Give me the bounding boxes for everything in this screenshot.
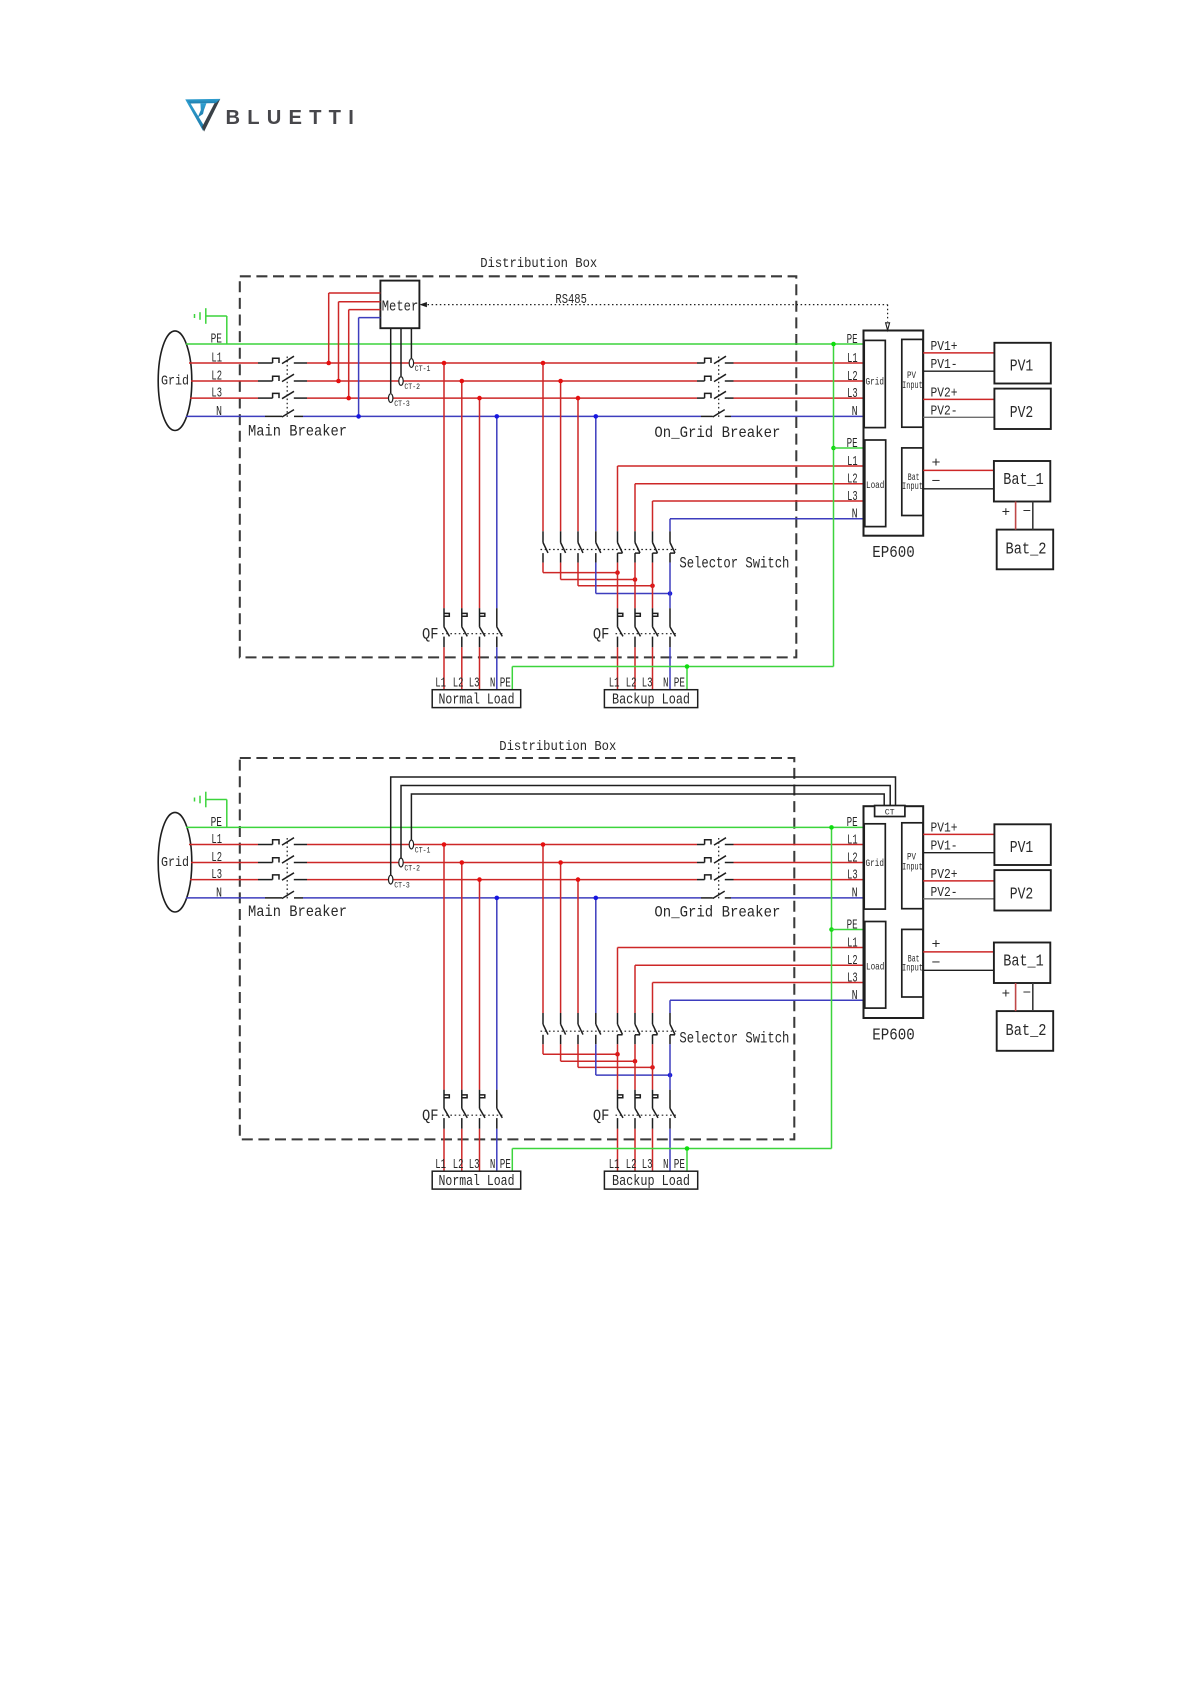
wire Bat_1 to Bat_2 - link (diagram 1) bbox=[1023, 502, 1033, 530]
svg-text:Normal Load: Normal Load bbox=[439, 1174, 515, 1190]
wire meter tap to L1 bbox=[326, 293, 380, 365]
breaker QF (Normal Load) pole L1 diagram 2 bbox=[444, 1090, 450, 1129]
svg-text:Load: Load bbox=[866, 961, 885, 973]
wire selector link L1 (diagram 1) bbox=[543, 563, 620, 575]
wire selector link L3 (diagram 2) bbox=[578, 1044, 655, 1069]
svg-text:CT-3: CT-3 bbox=[394, 399, 410, 409]
mechanical link QF Normal (diagram 2) bbox=[442, 1114, 504, 1116]
EP600 CT port box bbox=[875, 806, 905, 818]
wire drop L1 to Normal-Load QF (diagram 2) bbox=[442, 842, 447, 1089]
net labels PE L1 L2 L3 N at EP600 Load port (diagram 2) bbox=[847, 918, 858, 1004]
svg-text:L1: L1 bbox=[211, 832, 222, 848]
wire PE to EP600 Load port (diagram 2) bbox=[832, 929, 864, 931]
breaker QF (Backup Load) pole N diagram 2 bbox=[670, 1090, 676, 1129]
wire drop N to Normal-Load QF (diagram 1) bbox=[495, 414, 500, 608]
wire L2 selector to Backup-Load QF and terminal (diagram 1) bbox=[634, 563, 636, 690]
wire meter to CT-2 bbox=[400, 328, 402, 376]
wire Bat + (diagram 1) bbox=[923, 455, 994, 471]
wire Bat_1 to Bat_2 + link (diagram 1) bbox=[1002, 502, 1016, 530]
meter M1 (Meter) bbox=[380, 281, 419, 329]
BLUETTI logo icon bbox=[185, 99, 220, 132]
load block Backup Load (diagram 2) bbox=[604, 1171, 697, 1190]
selector switch pole 8 (EP600 N) diagram 2 bbox=[670, 1013, 675, 1044]
svg-text:Backup Load: Backup Load bbox=[612, 1174, 690, 1190]
breaker QF (Normal Load) pole L1 diagram 1 bbox=[444, 608, 450, 647]
net labels PE L1 L2 L3 N at EP600 Grid port (diagram 1) bbox=[847, 333, 858, 420]
EP600 PV Input port (diagram 1) bbox=[902, 339, 923, 427]
svg-text:PV1: PV1 bbox=[1010, 839, 1034, 858]
wire EP600 Load L1 to Selector Switch (diagram 1) bbox=[618, 466, 864, 531]
wire Bat + (diagram 2) bbox=[923, 937, 994, 953]
breaker QF (Normal Load) pole L3 diagram 1 bbox=[480, 608, 486, 647]
selector switch pole 5 (EP600 L1) diagram 2 bbox=[618, 1013, 623, 1044]
net labels PE L1 L2 L3 N at grid (diagram 2) bbox=[211, 815, 222, 902]
svg-text:Grid: Grid bbox=[161, 855, 189, 871]
wire L1 QF to Normal Load terminal (diagram 1) bbox=[443, 647, 445, 690]
wire EP600 Load L3 to Selector Switch (diagram 2) bbox=[653, 983, 864, 1014]
wire meter tap to L2 bbox=[336, 302, 380, 384]
wire PV2+ (diagram 1) bbox=[923, 385, 994, 401]
wire drop L1 to Normal-Load QF (diagram 1) bbox=[442, 361, 447, 609]
selector switch pole 4 (grid N) diagram 2 bbox=[596, 1013, 601, 1044]
svg-text:Input: Input bbox=[902, 964, 923, 975]
CT sensor CT-3 on L3 (diagram 1) bbox=[389, 394, 410, 409]
svg-text:N: N bbox=[852, 989, 858, 1004]
svg-text:QF: QF bbox=[422, 626, 439, 644]
wire PE bottom run to load terminals (diagram 1) bbox=[512, 664, 833, 690]
wire EP600 Load L3 to Selector Switch (diagram 1) bbox=[653, 501, 864, 531]
selector switch pole 8 (EP600 N) diagram 1 bbox=[670, 531, 675, 562]
inverter EP600 outline (diagram 2) bbox=[864, 806, 924, 1018]
distribution box dashed enclosure (diagram 1) bbox=[240, 276, 797, 657]
terminal labels L1 L2 L3 N PE at Normal Load (diagram 2) bbox=[435, 1158, 511, 1173]
EP600 Load output port (diagram 1) bbox=[865, 440, 886, 527]
svg-text:CT-2: CT-2 bbox=[404, 864, 420, 874]
breaker: On_Grid Breaker pole L3 (diagram 2) bbox=[705, 873, 726, 880]
selector switch pole 4 (grid N) diagram 1 bbox=[596, 531, 601, 562]
wire drop L3 to Normal-Load QF (diagram 2) bbox=[477, 877, 482, 1089]
wire Bat_1 to Bat_2 - link (diagram 2) bbox=[1023, 983, 1033, 1011]
net labels PE L1 L2 L3 N at EP600 Grid port (diagram 2) bbox=[847, 816, 858, 902]
wire L2 QF to Normal Load terminal (diagram 1) bbox=[461, 647, 463, 690]
svg-text:PE: PE bbox=[211, 815, 222, 831]
svg-text:On_Grid Breaker: On_Grid Breaker bbox=[654, 424, 780, 442]
selector switch pole 6 (EP600 L2) diagram 1 bbox=[635, 531, 640, 562]
solar panel PV1 (diagram 2) bbox=[994, 824, 1050, 865]
selector switch pole 1 (grid L1) diagram 1 bbox=[543, 531, 548, 562]
wire selector link L2 (diagram 2) bbox=[561, 1044, 638, 1063]
wire L3 selector to Backup-Load QF and terminal (diagram 1) bbox=[652, 563, 654, 690]
svg-text:QF: QF bbox=[593, 1107, 610, 1125]
mechanical link of Selector Switch (diagram 1) bbox=[541, 549, 677, 551]
wire Bat - (diagram 1) bbox=[923, 474, 994, 490]
EP600 PV Input port (diagram 2) bbox=[902, 823, 923, 909]
svg-text:Load: Load bbox=[866, 480, 885, 492]
mechanical link of Selector Switch (diagram 2) bbox=[541, 1030, 677, 1032]
wire EP600 Load L2 to Selector Switch (diagram 1) bbox=[635, 484, 864, 532]
breaker QF (Backup Load) pole L2 diagram 2 bbox=[635, 1090, 641, 1129]
load block Normal Load (diagram 2) bbox=[432, 1171, 521, 1190]
svg-text:Selector Switch: Selector Switch bbox=[679, 1029, 789, 1047]
svg-text:EP600: EP600 bbox=[872, 544, 915, 563]
EP600 Bat Input port (diagram 1) bbox=[902, 448, 923, 516]
wire Bat - (diagram 2) bbox=[923, 955, 994, 971]
svg-text:L2: L2 bbox=[847, 473, 858, 488]
breaker: On_Grid Breaker pole N (diagram 1) bbox=[713, 410, 725, 417]
wire selector link L3 (diagram 1) bbox=[578, 563, 655, 589]
breaker: On_Grid Breaker pole N (diagram 2) bbox=[713, 891, 725, 898]
svg-text:L2: L2 bbox=[847, 954, 858, 969]
wire EP600 Load N to Selector Switch (diagram 1) bbox=[670, 519, 864, 532]
svg-text:L1: L1 bbox=[847, 455, 858, 470]
svg-text:+: + bbox=[1002, 988, 1011, 1003]
svg-text:N: N bbox=[216, 885, 222, 901]
breaker: Main Breaker pole L3 (diagram 1) bbox=[273, 391, 294, 398]
wire L2 bus diagram 2 bbox=[191, 862, 864, 864]
wire drop L1 to Selector Switch (diagram 2) bbox=[541, 842, 546, 1013]
svg-text:L1: L1 bbox=[211, 351, 222, 367]
svg-text:RS485: RS485 bbox=[555, 293, 587, 308]
selector switch pole 3 (grid L3) diagram 2 bbox=[578, 1013, 583, 1044]
EP600 Bat Input port (diagram 2) bbox=[902, 929, 923, 997]
battery Bat_2 (diagram 1) bbox=[997, 530, 1053, 570]
mechanical link QF Backup (diagram 2) bbox=[616, 1114, 677, 1116]
svg-text:Bat_1: Bat_1 bbox=[1003, 952, 1044, 971]
svg-text:PV2: PV2 bbox=[1010, 885, 1034, 904]
wire drop L2 to Selector Switch (diagram 2) bbox=[558, 860, 563, 1013]
svg-text:N: N bbox=[852, 508, 858, 523]
wire N QF to Normal Load terminal (diagram 1) bbox=[496, 647, 498, 690]
breaker QF (Normal Load) pole L2 diagram 1 bbox=[462, 608, 468, 647]
wire PV1- (diagram 2) bbox=[923, 839, 994, 855]
CT sensor CT-1 on L1 (diagram 2) bbox=[409, 840, 430, 855]
svg-text:Main Breaker: Main Breaker bbox=[248, 903, 347, 921]
wire PV2- (diagram 2) bbox=[923, 885, 994, 901]
wire drop N to Selector Switch (diagram 1) bbox=[594, 414, 599, 531]
svg-text:L3: L3 bbox=[211, 386, 222, 402]
wire L2 bus diagram 1 bbox=[191, 380, 864, 382]
wire Bat_1 to Bat_2 + link (diagram 2) bbox=[1002, 983, 1016, 1011]
svg-text:PE: PE bbox=[847, 918, 858, 933]
svg-text:L3: L3 bbox=[847, 387, 858, 402]
wire CT-2 to CT port bbox=[401, 786, 890, 868]
svg-text:On_Grid Breaker: On_Grid Breaker bbox=[654, 904, 780, 922]
svg-text:Input: Input bbox=[902, 381, 923, 392]
CT sensor CT-2 on L2 (diagram 1) bbox=[399, 377, 420, 392]
wire L1 bus diagram 1 bbox=[189, 362, 864, 364]
battery Bat_1 (diagram 1) bbox=[994, 461, 1050, 502]
svg-text:L1: L1 bbox=[847, 352, 858, 367]
wire L3 QF to Normal Load terminal (diagram 1) bbox=[479, 647, 481, 690]
svg-text:Grid: Grid bbox=[866, 377, 885, 389]
wire PV1- (diagram 1) bbox=[923, 357, 994, 373]
svg-text:N: N bbox=[852, 405, 858, 420]
wire L2 QF to Normal Load terminal (diagram 2) bbox=[461, 1129, 463, 1172]
wire selector link L1 (diagram 2) bbox=[543, 1044, 620, 1056]
wire meter tap to N bbox=[356, 318, 380, 419]
svg-text:Bat_1: Bat_1 bbox=[1003, 471, 1044, 490]
breaker: Main Breaker pole L1 (diagram 2) bbox=[273, 838, 294, 845]
EP600 Load output port (diagram 2) bbox=[865, 922, 886, 1009]
svg-text:−: − bbox=[1023, 505, 1032, 520]
battery Bat_2 (diagram 2) bbox=[997, 1011, 1053, 1051]
wire PE vertical feeder (diagram 1) bbox=[831, 342, 836, 667]
wire meter to CT-1 bbox=[410, 328, 412, 358]
svg-text:CT-1: CT-1 bbox=[415, 364, 431, 374]
wire selector link N (diagram 2) bbox=[596, 1044, 673, 1077]
mechanical link of Main Breaker (diagram 2) bbox=[286, 838, 288, 899]
wire L3 bus diagram 1 bbox=[190, 397, 864, 399]
wire L3 QF to Normal Load terminal (diagram 2) bbox=[479, 1129, 481, 1172]
wire EP600 Load L1 to Selector Switch (diagram 2) bbox=[618, 948, 864, 1014]
breaker QF (Backup Load) pole N diagram 1 bbox=[670, 608, 676, 647]
breaker: On_Grid Breaker pole L2 (diagram 1) bbox=[705, 374, 726, 381]
terminal labels L1 L2 L3 N PE at Backup Load (diagram 2) bbox=[609, 1158, 685, 1173]
CT sensor CT-1 on L1 (diagram 1) bbox=[409, 359, 430, 374]
wire drop N to Normal-Load QF (diagram 2) bbox=[495, 896, 500, 1090]
wire L1 selector to Backup-Load QF and terminal (diagram 1) bbox=[617, 563, 619, 690]
breaker: Main Breaker pole N (diagram 2) bbox=[282, 891, 294, 898]
svg-text:N: N bbox=[852, 887, 858, 902]
svg-text:Normal Load: Normal Load bbox=[439, 693, 515, 709]
svg-text:+: + bbox=[932, 455, 941, 471]
breaker: Main Breaker pole L2 (diagram 1) bbox=[273, 374, 294, 381]
wire selector link N (diagram 1) bbox=[596, 563, 673, 596]
wire PE vertical feeder (diagram 2) bbox=[829, 825, 834, 1148]
EP600 Grid input port (diagram 1) bbox=[864, 340, 885, 427]
svg-text:QF: QF bbox=[422, 1107, 439, 1125]
breaker: On_Grid Breaker pole L2 (diagram 2) bbox=[705, 856, 726, 863]
wire meter tap to L3 bbox=[346, 310, 380, 401]
selector switch pole 3 (grid L3) diagram 1 bbox=[578, 531, 583, 562]
solar panel PV2 (diagram 2) bbox=[994, 870, 1050, 910]
svg-text:L2: L2 bbox=[211, 850, 222, 866]
svg-text:−: − bbox=[932, 955, 941, 971]
svg-text:Backup Load: Backup Load bbox=[612, 693, 690, 709]
wire PV1+ (diagram 1) bbox=[923, 339, 994, 355]
wire CT-3 to CT port bbox=[391, 777, 896, 885]
svg-text:EP600: EP600 bbox=[872, 1027, 915, 1046]
load block Normal Load (diagram 1) bbox=[432, 690, 521, 709]
breaker QF (Backup Load) pole L1 diagram 2 bbox=[618, 1090, 624, 1129]
breaker QF (Backup Load) pole L2 diagram 1 bbox=[635, 608, 641, 647]
svg-text:PV1: PV1 bbox=[1010, 358, 1034, 377]
svg-text:PE: PE bbox=[211, 332, 222, 348]
svg-text:CT-2: CT-2 bbox=[404, 382, 420, 392]
breaker: Main Breaker pole L3 (diagram 2) bbox=[273, 873, 294, 880]
wire PE bottom run to load terminals (diagram 2) bbox=[512, 1146, 831, 1171]
wire N selector to Backup-Load QF and terminal (diagram 1) bbox=[669, 563, 671, 690]
breaker: Main Breaker pole L1 (diagram 1) bbox=[273, 356, 294, 363]
breaker QF (Normal Load) pole L2 diagram 2 bbox=[462, 1090, 468, 1129]
breaker QF (Normal Load) pole N diagram 1 bbox=[497, 608, 503, 647]
svg-text:Grid: Grid bbox=[161, 374, 189, 390]
wire L1 selector to Backup-Load QF and terminal (diagram 2) bbox=[617, 1044, 619, 1171]
svg-text:Distribution Box: Distribution Box bbox=[499, 739, 616, 755]
wire EP600 Load L2 to Selector Switch (diagram 2) bbox=[635, 965, 864, 1013]
terminal labels L1 L2 L3 N PE at Normal Load (diagram 1) bbox=[435, 677, 511, 692]
svg-text:QF: QF bbox=[593, 626, 610, 644]
svg-text:L2: L2 bbox=[847, 851, 858, 866]
svg-text:Bat_2: Bat_2 bbox=[1006, 541, 1047, 560]
mechanical link of Main Breaker (diagram 1) bbox=[286, 357, 288, 418]
mechanical link of On_Grid Breaker (diagram 2) bbox=[718, 838, 720, 899]
svg-text:L3: L3 bbox=[847, 490, 858, 505]
selector switch pole 2 (grid L2) diagram 1 bbox=[561, 531, 566, 562]
selector switch pole 2 (grid L2) diagram 2 bbox=[561, 1013, 566, 1044]
wire PV2+ (diagram 2) bbox=[923, 867, 994, 883]
svg-text:PE: PE bbox=[847, 437, 858, 452]
selector switch pole 5 (EP600 L1) diagram 1 bbox=[618, 531, 623, 562]
grid source G2 (Grid utility) bbox=[158, 812, 192, 912]
wire PV2- (diagram 1) bbox=[923, 403, 994, 419]
wire L3 bus diagram 2 bbox=[190, 879, 864, 881]
svg-text:+: + bbox=[932, 937, 941, 953]
svg-text:PV2: PV2 bbox=[1010, 404, 1034, 423]
svg-text:L3: L3 bbox=[211, 867, 222, 883]
ground / earth symbol (diagram 2) bbox=[195, 792, 227, 828]
solar panel PV2 (diagram 1) bbox=[994, 389, 1050, 429]
inverter EP600 outline (diagram 1) bbox=[864, 331, 924, 536]
wire PV1+ (diagram 2) bbox=[923, 820, 994, 836]
net labels PE L1 L2 L3 N at EP600 Load port (diagram 1) bbox=[847, 437, 858, 523]
breaker: On_Grid Breaker pole L3 (diagram 1) bbox=[705, 391, 726, 398]
breaker: On_Grid Breaker pole L1 (diagram 1) bbox=[705, 356, 726, 363]
battery Bat_1 (diagram 2) bbox=[994, 943, 1050, 984]
grid source G1 (Grid utility) bbox=[158, 331, 192, 431]
mechanical link QF Backup (diagram 1) bbox=[616, 633, 677, 635]
selector switch pole 7 (EP600 L3) diagram 1 bbox=[653, 531, 658, 562]
svg-text:BLUETTI: BLUETTI bbox=[226, 106, 362, 129]
svg-text:L1: L1 bbox=[847, 833, 858, 848]
svg-text:CT-3: CT-3 bbox=[394, 881, 410, 891]
wire meter to CT-3 bbox=[390, 328, 392, 393]
svg-text:Selector Switch: Selector Switch bbox=[679, 554, 789, 572]
svg-text:Distribution Box: Distribution Box bbox=[480, 256, 597, 272]
breaker: Main Breaker pole L2 (diagram 2) bbox=[273, 856, 294, 863]
wire PE to EP600 Load port (diagram 1) bbox=[834, 447, 864, 449]
wire drop N to Selector Switch (diagram 2) bbox=[594, 896, 599, 1013]
svg-text:Input: Input bbox=[902, 862, 923, 873]
wire L2 selector to Backup-Load QF and terminal (diagram 2) bbox=[634, 1044, 636, 1171]
svg-text:L3: L3 bbox=[847, 971, 858, 986]
wire EP600 Load N to Selector Switch (diagram 2) bbox=[670, 1000, 864, 1013]
svg-text:Meter: Meter bbox=[382, 298, 419, 315]
net labels PE L1 L2 L3 N at grid (diagram 1) bbox=[211, 332, 222, 420]
breaker QF (Normal Load) pole N diagram 2 bbox=[497, 1090, 503, 1129]
svg-text:PE: PE bbox=[847, 333, 858, 348]
ground / earth symbol (diagram 1) bbox=[195, 308, 227, 344]
svg-text:N: N bbox=[216, 404, 222, 420]
svg-text:Grid: Grid bbox=[866, 858, 885, 870]
wire PE bus (green) diagram 1 bbox=[186, 343, 864, 345]
svg-text:Input: Input bbox=[902, 482, 923, 493]
wire N QF to Normal Load terminal (diagram 2) bbox=[496, 1129, 498, 1172]
wire drop L2 to Normal-Load QF (diagram 1) bbox=[460, 379, 465, 609]
svg-text:+: + bbox=[1002, 506, 1011, 521]
mechanical link of On_Grid Breaker (diagram 1) bbox=[718, 357, 720, 418]
wire drop L2 to Selector Switch (diagram 1) bbox=[558, 379, 563, 532]
breaker: On_Grid Breaker pole L1 (diagram 2) bbox=[705, 838, 726, 845]
breaker QF (Backup Load) pole L3 diagram 2 bbox=[653, 1090, 659, 1129]
svg-text:−: − bbox=[1023, 987, 1032, 1002]
wire drop L3 to Selector Switch (diagram 1) bbox=[576, 396, 581, 531]
solar panel PV1 (diagram 1) bbox=[994, 343, 1050, 384]
svg-text:CT: CT bbox=[885, 807, 895, 817]
wire drop L2 to Normal-Load QF (diagram 2) bbox=[460, 860, 465, 1089]
distribution box dashed enclosure (diagram 2) bbox=[240, 758, 795, 1139]
mechanical link QF Normal (diagram 1) bbox=[442, 633, 504, 635]
RS485 dotted communication line with arrows bbox=[419, 302, 889, 330]
svg-text:Main Breaker: Main Breaker bbox=[248, 423, 347, 441]
wire selector link L2 (diagram 1) bbox=[561, 563, 638, 582]
selector switch pole 1 (grid L1) diagram 2 bbox=[543, 1013, 548, 1044]
svg-text:L2: L2 bbox=[847, 370, 858, 385]
svg-text:L1: L1 bbox=[847, 936, 858, 951]
svg-text:CT-1: CT-1 bbox=[415, 846, 431, 856]
svg-text:PE: PE bbox=[847, 816, 858, 831]
breaker QF (Normal Load) pole L3 diagram 2 bbox=[480, 1090, 486, 1129]
selector switch pole 7 (EP600 L3) diagram 2 bbox=[653, 1013, 658, 1044]
CT sensor CT-3 on L3 (diagram 2) bbox=[389, 875, 410, 890]
wire N bus (blue) diagram 2 bbox=[186, 897, 864, 899]
wire N bus (blue) diagram 1 bbox=[186, 415, 864, 417]
svg-text:−: − bbox=[932, 474, 941, 490]
svg-text:L2: L2 bbox=[211, 369, 222, 385]
wire PE bus (green) diagram 2 bbox=[186, 826, 864, 828]
selector switch pole 6 (EP600 L2) diagram 2 bbox=[635, 1013, 640, 1044]
wire drop L3 to Normal-Load QF (diagram 1) bbox=[477, 396, 482, 608]
svg-text:Bat_2: Bat_2 bbox=[1006, 1022, 1047, 1041]
wire drop L3 to Selector Switch (diagram 2) bbox=[576, 877, 581, 1013]
EP600 Grid input port (diagram 2) bbox=[864, 824, 885, 909]
wire CT-1 to CT port bbox=[411, 794, 884, 850]
wire drop L1 to Selector Switch (diagram 1) bbox=[541, 361, 546, 532]
wire N selector to Backup-Load QF and terminal (diagram 2) bbox=[669, 1044, 671, 1171]
terminal labels L1 L2 L3 N PE at Backup Load (diagram 1) bbox=[609, 677, 685, 692]
breaker: Main Breaker pole N (diagram 1) bbox=[282, 410, 294, 417]
wire L1 QF to Normal Load terminal (diagram 2) bbox=[443, 1129, 445, 1172]
wire L1 bus diagram 2 bbox=[189, 844, 864, 846]
svg-text:L3: L3 bbox=[847, 868, 858, 883]
breaker QF (Backup Load) pole L3 diagram 1 bbox=[653, 608, 659, 647]
wire L3 selector to Backup-Load QF and terminal (diagram 2) bbox=[652, 1044, 654, 1171]
load block Backup Load (diagram 1) bbox=[604, 690, 697, 709]
breaker QF (Backup Load) pole L1 diagram 1 bbox=[618, 608, 624, 647]
CT sensor CT-2 on L2 (diagram 2) bbox=[399, 858, 420, 873]
